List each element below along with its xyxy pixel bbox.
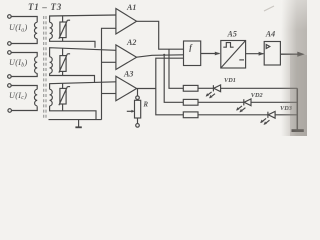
transformer core (common, dashed) — [44, 16, 46, 120]
wire A3 branch down to resistor of VD3 — [156, 89, 184, 115]
varistor RU2 — [59, 48, 70, 75]
wire T2 secondary top to A2 input — [50, 48, 116, 57]
LED VD3 — [260, 111, 275, 125]
wire resistor to LED VD2 — [198, 101, 244, 103]
resistor of VD2 branch — [183, 99, 198, 105]
wire resistor to LED VD1 — [198, 87, 213, 89]
svg-text:R: R — [143, 102, 149, 109]
wire T1 secondary bottom bus — [50, 39, 95, 48]
varistor RU1 — [59, 16, 70, 42]
wire common bus to A2 inverting input — [102, 61, 116, 63]
wire block f output arrow to A5 — [201, 52, 220, 56]
wire A3 output — [137, 88, 156, 90]
input terminal 2 — [8, 42, 12, 46]
wire A1 branch down to resistor of VD1 — [169, 49, 183, 88]
wire LED VD3 to right rail — [275, 114, 297, 116]
svg-text:U(Ib): U(Ib) — [9, 58, 28, 68]
svg-text:VD1: VD1 — [224, 77, 236, 84]
wire common bus to A1 inverting input — [102, 28, 116, 119]
transformer T2 primary winding — [34, 57, 37, 74]
resistor R (trimmer) — [127, 89, 141, 128]
resistor of VD3 branch — [183, 112, 198, 118]
scan shadow right edge — [264, 6, 274, 11]
svg-text:U(Ic): U(Ic) — [9, 91, 27, 101]
block A4 — [264, 42, 280, 66]
block f — [184, 41, 201, 66]
wire right rail — [296, 88, 298, 130]
svg-text:VD2: VD2 — [251, 92, 263, 99]
LED VD2 — [236, 99, 251, 113]
wire A2 branch down to resistor of VD2 — [164, 55, 183, 103]
resistor of VD1 branch — [183, 85, 198, 91]
ground — [75, 120, 81, 128]
wire T1 secondary top to A1 input — [50, 15, 116, 22]
block A5 — [221, 41, 246, 69]
wire resistor to LED VD3 — [198, 114, 268, 116]
wire T3 secondary top to A3 input — [50, 82, 116, 90]
wire terminal1 to T1 primary top — [11, 17, 37, 23]
junction — [163, 54, 165, 56]
wire A4 output arrow — [280, 52, 304, 57]
wire terminal2 to T1 primary bottom — [11, 39, 37, 44]
wire T2 secondary bottom bus — [50, 73, 95, 83]
op-amp A2 — [116, 45, 137, 70]
svg-text:A3: A3 — [123, 69, 133, 78]
input terminal 6 — [8, 109, 12, 113]
wire bottom common bus — [49, 119, 102, 121]
input terminal 1 — [8, 15, 12, 19]
transformer T1 secondary winding — [50, 22, 53, 39]
input terminal 3 — [8, 51, 12, 55]
svg-text:U(Ia): U(Ia) — [9, 23, 28, 33]
op-amp A3 — [116, 76, 137, 101]
wire terminal4 to T2 primary bottom — [11, 73, 37, 76]
wire A2 output to block f input 2 — [137, 55, 184, 57]
transformer T1 primary winding — [34, 22, 37, 39]
svg-text:T1 – T3: T1 – T3 — [28, 2, 62, 12]
input terminal 4 — [8, 75, 12, 79]
LED VD1 — [206, 85, 221, 99]
svg-text:A5: A5 — [227, 29, 237, 38]
wire terminal5 to T3 primary top — [11, 86, 37, 90]
transformer T3 secondary winding — [50, 89, 53, 106]
wire A1 output to block f input 1 — [137, 21, 184, 49]
wire terminal6 to T3 primary bottom — [12, 106, 38, 110]
input terminal 5 — [8, 84, 12, 88]
wire T3 secondary bottom bus — [50, 106, 96, 120]
transformer T3 primary winding — [34, 89, 37, 106]
op-amp A1 — [116, 9, 137, 35]
wire A3 to block f input 3 — [156, 58, 184, 88]
ground right — [292, 129, 304, 132]
wire LED VD1 to right rail — [221, 87, 298, 89]
svg-text:A2: A2 — [126, 38, 136, 47]
svg-text:A4: A4 — [265, 29, 275, 38]
svg-text:A1: A1 — [126, 3, 136, 12]
transformer T2 secondary winding — [50, 57, 53, 74]
wire common bus to A3 inverting input — [102, 93, 116, 95]
wire LED VD2 to right rail — [251, 101, 297, 103]
wire A5 output arrow to A4 — [246, 52, 265, 56]
wire terminal3 to T2 primary top — [11, 53, 37, 57]
varistor RU3 — [59, 83, 70, 111]
